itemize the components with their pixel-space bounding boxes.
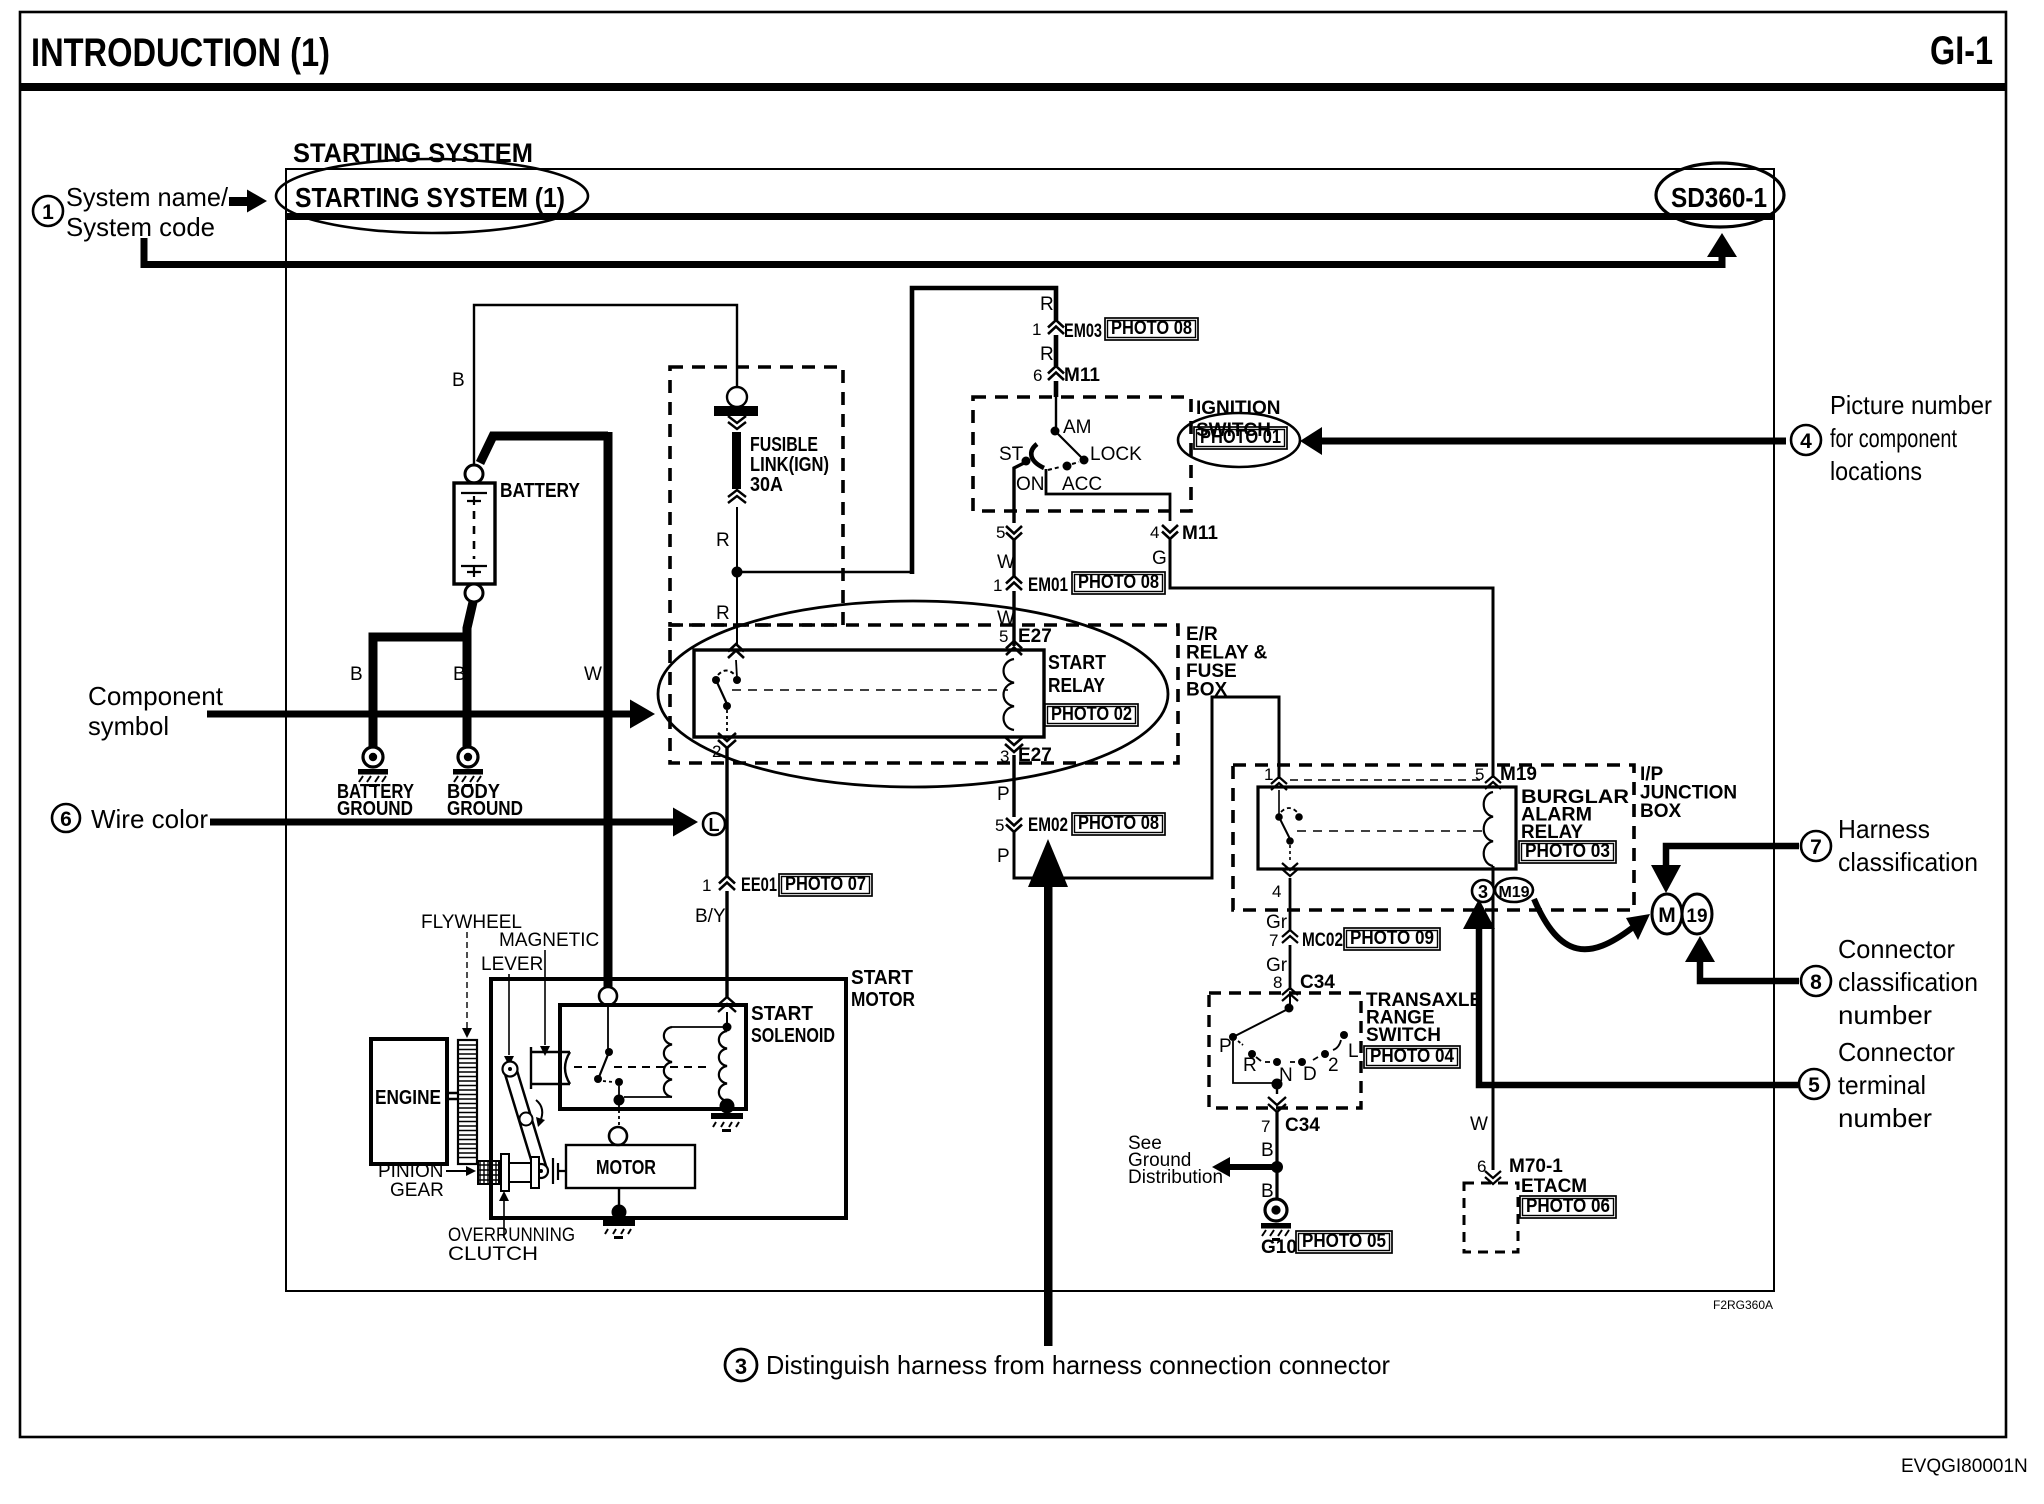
svg-text:M70-1: M70-1	[1509, 1156, 1563, 1177]
burglar relay centre dashed line	[1297, 830, 1486, 832]
transaxle switch common node	[1285, 1004, 1294, 1013]
svg-text:Connector: Connector	[1838, 934, 1955, 964]
node R junction	[732, 567, 743, 578]
svg-text:PHOTO 08: PHOTO 08	[1078, 572, 1159, 593]
svg-text:C34: C34	[1285, 1115, 1320, 1136]
svg-text:OVERRUNNING: OVERRUNNING	[448, 1225, 575, 1246]
svg-text:number: number	[1838, 1000, 1932, 1030]
burglar relay switch	[1275, 813, 1283, 821]
callout 3 arrow distinguish harness	[1044, 886, 1053, 1346]
node ST contact	[1022, 457, 1031, 466]
svg-text:RELAY: RELAY	[1048, 675, 1106, 697]
wire solenoid switch to motor	[618, 1104, 620, 1127]
svg-text:E27: E27	[1018, 745, 1052, 766]
battery positive terminal circle	[465, 465, 483, 483]
pinion gear	[478, 1161, 499, 1184]
svg-text:B: B	[350, 664, 363, 685]
svg-text:R: R	[1040, 344, 1054, 365]
battery ground symbol	[363, 747, 383, 767]
callout 8 circle	[1801, 966, 1831, 996]
svg-text:W: W	[1470, 1114, 1488, 1135]
fusible link element	[732, 432, 741, 489]
photo box MC02 PHOTO 09	[1344, 928, 1440, 950]
wire ACC to terminal 4	[1046, 469, 1170, 521]
wire EM01 to start relay pin 5	[1012, 591, 1015, 646]
svg-text:M: M	[1658, 904, 1676, 927]
photo box EM03 PHOTO 08	[1105, 318, 1198, 340]
transaxle contact 2	[1321, 1050, 1329, 1058]
svg-text:LINK(IGN): LINK(IGN)	[750, 454, 829, 476]
ETACM dashed box	[1464, 1183, 1518, 1252]
svg-text:BATTERY: BATTERY	[500, 480, 581, 502]
wire B/Y EE01 to solenoid	[725, 891, 728, 998]
svg-text:4: 4	[1800, 430, 1812, 453]
connector 3 circle	[1472, 880, 1494, 902]
svg-text:7: 7	[1810, 836, 1822, 859]
wire R EM03 to M11	[1054, 335, 1059, 366]
svg-text:30A: 30A	[750, 474, 783, 496]
photo box ETACM PHOTO 06	[1520, 1196, 1616, 1218]
start relay coil pin 3 chevron	[1005, 737, 1023, 752]
callout 7 leader	[1666, 846, 1799, 866]
svg-text:RELAY: RELAY	[1521, 822, 1583, 843]
svg-text:6: 6	[1033, 366, 1042, 385]
svg-text:symbol: symbol	[88, 711, 169, 741]
svg-text:System code: System code	[66, 212, 215, 242]
transaxle output node	[1272, 1079, 1283, 1090]
diagram frame box	[286, 169, 1774, 1291]
svg-text:EE01: EE01	[741, 875, 777, 896]
node AM contact	[1051, 427, 1060, 436]
svg-text:ETACM: ETACM	[1521, 1176, 1587, 1197]
svg-text:7: 7	[1269, 931, 1278, 950]
svg-text:1: 1	[1032, 320, 1041, 339]
component symbol ellipse	[658, 601, 1168, 787]
svg-text:PHOTO 08: PHOTO 08	[1078, 813, 1159, 834]
body ground symbol	[458, 747, 478, 767]
overrunning clutch leader	[503, 1197, 505, 1238]
solenoid coil junction	[726, 1012, 728, 1026]
svg-text:2: 2	[1328, 1055, 1339, 1076]
svg-text:MOTOR: MOTOR	[596, 1157, 656, 1179]
wire ST to terminal 5	[1014, 462, 1026, 523]
svg-text:F2RG360A: F2RG360A	[1713, 1298, 1773, 1312]
system name ellipse	[276, 159, 588, 233]
svg-text:B: B	[1261, 1140, 1274, 1161]
callout 8 leader	[1700, 958, 1799, 981]
svg-text:B: B	[453, 664, 466, 685]
callout 5 circle	[1799, 1069, 1829, 1099]
curved arrow M19 to oval	[1534, 899, 1632, 949]
engine shaft	[447, 1093, 459, 1099]
svg-text:L: L	[1348, 1041, 1359, 1062]
burglar relay inner dashed line	[1290, 779, 1480, 781]
transaxle switch arm to P	[1235, 1010, 1286, 1036]
thick wire battery negative to grounds	[373, 602, 473, 748]
svg-text:EVQGI80001N: EVQGI80001N	[1901, 1456, 2028, 1477]
start relay box	[694, 650, 1044, 737]
start solenoid box	[560, 1005, 746, 1109]
solenoid actuator dashed line	[574, 1066, 600, 1068]
transaxle contact N	[1273, 1058, 1281, 1066]
svg-text:AM: AM	[1063, 417, 1092, 438]
callout 4 circle	[1791, 425, 1821, 455]
lever rotation arrow	[536, 1100, 542, 1122]
svg-text:M11: M11	[1182, 523, 1218, 544]
flywheel leader	[466, 932, 468, 1028]
callout 4 arrow	[1321, 438, 1786, 445]
svg-text:1: 1	[993, 576, 1002, 595]
start relay centre dashed line	[732, 689, 1008, 691]
svg-text:PINION: PINION	[378, 1161, 443, 1182]
svg-text:8: 8	[1273, 973, 1282, 992]
ignition key arm	[1031, 444, 1044, 468]
svg-text:B/Y: B/Y	[695, 906, 726, 927]
svg-text:R: R	[716, 530, 730, 551]
svg-text:SWITCH: SWITCH	[1366, 1025, 1441, 1046]
motor box	[566, 1145, 695, 1188]
svg-text:FUSIBLE: FUSIBLE	[750, 434, 818, 456]
svg-text:C34: C34	[1300, 972, 1335, 993]
svg-text:1: 1	[42, 201, 54, 224]
burglar alarm relay box	[1258, 787, 1516, 869]
motor ground	[618, 1188, 620, 1206]
photo box TRANSAXLE PHOTO 04	[1364, 1046, 1460, 1068]
svg-text:INTRODUCTION (1): INTRODUCTION (1)	[31, 31, 330, 75]
callout 1 circle	[33, 196, 63, 226]
svg-text:Distinguish harness from harne: Distinguish harness from harness connect…	[766, 1350, 1390, 1380]
svg-text:CLUTCH: CLUTCH	[448, 1244, 538, 1265]
svg-text:MAGNETIC: MAGNETIC	[499, 930, 599, 951]
svg-text:Component: Component	[88, 681, 224, 711]
svg-text:5: 5	[995, 816, 1004, 835]
photo box PHOTO 01	[1194, 427, 1287, 449]
svg-text:EM03: EM03	[1064, 321, 1102, 342]
svg-text:M19: M19	[1498, 884, 1529, 901]
svg-text:number: number	[1838, 1103, 1932, 1133]
fusible link top terminal circle	[727, 387, 747, 407]
pinion gear arrow	[446, 1170, 468, 1172]
svg-text:5: 5	[996, 523, 1005, 542]
svg-text:Wire color: Wire color	[91, 804, 208, 834]
svg-text:5: 5	[1808, 1074, 1820, 1097]
svg-text:M11: M11	[1064, 365, 1100, 386]
start relay switch	[712, 676, 720, 684]
svg-text:19: 19	[1686, 906, 1707, 927]
transaxle contact L	[1340, 1031, 1348, 1039]
wire B battery to fusible link	[474, 305, 737, 465]
photo box START RELAY PHOTO 02	[1045, 704, 1138, 726]
solenoid pull-in coil	[664, 1027, 672, 1097]
photo box EM01 PHOTO 08	[1072, 572, 1165, 594]
see ground distribution arrow	[1212, 1157, 1230, 1177]
svg-text:P: P	[997, 846, 1010, 867]
start relay coil pin 5 chevron	[1006, 641, 1022, 655]
svg-text:GEAR: GEAR	[390, 1180, 444, 1201]
transaxle contact R	[1248, 1050, 1256, 1058]
connector classification 19 oval	[1682, 894, 1712, 934]
svg-text:3: 3	[1000, 747, 1009, 766]
svg-text:4: 4	[1272, 882, 1281, 901]
ground G10 symbol	[1265, 1199, 1287, 1221]
battery BAT symbol	[454, 483, 495, 584]
burglar relay pin 4 chevron	[1282, 863, 1298, 876]
callout 1 arrow	[229, 197, 249, 206]
node LOCK contact	[1080, 456, 1089, 465]
svg-text:Distribution: Distribution	[1128, 1167, 1223, 1188]
svg-text:4: 4	[1150, 523, 1159, 542]
ignition AM-LOCK arm	[1056, 432, 1082, 458]
overrunning clutch	[501, 1154, 509, 1191]
svg-text:R: R	[1040, 294, 1054, 315]
svg-text:PHOTO 04: PHOTO 04	[1370, 1046, 1454, 1067]
start motor box	[491, 979, 846, 1218]
svg-text:EM02: EM02	[1028, 815, 1068, 836]
svg-text:1: 1	[702, 876, 711, 895]
svg-text:STARTING SYSTEM (1): STARTING SYSTEM (1)	[295, 182, 565, 213]
svg-text:EM01: EM01	[1028, 575, 1068, 596]
node ACC contact	[1063, 462, 1072, 471]
svg-text:3: 3	[1478, 882, 1488, 902]
solenoid switch	[607, 1005, 609, 1049]
wire R fusible to relay	[736, 507, 738, 646]
battery negative terminal circle	[465, 584, 483, 602]
svg-text:PHOTO 08: PHOTO 08	[1111, 318, 1192, 339]
wire R junction to EM03 riser	[737, 571, 912, 573]
svg-text:7: 7	[1261, 1117, 1270, 1136]
start relay pin 2 chevron	[718, 733, 736, 748]
svg-text:SOLENOID: SOLENOID	[751, 1025, 835, 1047]
svg-text:System name/: System name/	[66, 182, 229, 212]
svg-text:classification: classification	[1838, 847, 1978, 877]
svg-text:B: B	[452, 370, 465, 391]
svg-text:R: R	[1243, 1055, 1257, 1076]
svg-text:PHOTO 03: PHOTO 03	[1525, 841, 1610, 862]
svg-text:PHOTO 09: PHOTO 09	[1350, 928, 1434, 949]
transaxle range switch dashed box	[1209, 993, 1361, 1108]
photo box G10 PHOTO 05	[1296, 1231, 1392, 1253]
svg-text:3: 3	[735, 1354, 747, 1379]
magnetic leader	[544, 950, 546, 1045]
flywheel gear	[458, 1040, 477, 1164]
burglar relay coil	[1484, 792, 1493, 866]
svg-text:E27: E27	[1018, 626, 1052, 647]
start relay pin 1 chevron	[728, 644, 744, 658]
svg-text:BOX: BOX	[1640, 801, 1682, 822]
svg-text:locations: locations	[1830, 456, 1922, 486]
wire 5 to EM01	[1012, 540, 1015, 577]
svg-text:Harness: Harness	[1838, 814, 1930, 844]
callout component symbol arrow	[207, 711, 631, 718]
solenoid plunger	[531, 1047, 570, 1089]
svg-text:8: 8	[1810, 971, 1822, 994]
svg-text:M19: M19	[1500, 764, 1537, 785]
svg-text:classification: classification	[1838, 967, 1978, 997]
photo box BURGLAR PHOTO 03	[1519, 841, 1616, 863]
svg-text:START: START	[751, 1003, 813, 1025]
wire M11 to ignition switch AM	[1054, 381, 1059, 397]
wire M19 pin3 to ETACM	[1492, 866, 1495, 1170]
solenoid hold coil	[719, 1031, 727, 1101]
wire B C34 to G10	[1275, 1111, 1278, 1200]
svg-text:GROUND: GROUND	[447, 798, 523, 820]
svg-text:terminal: terminal	[1838, 1070, 1926, 1100]
svg-text:P: P	[1219, 1036, 1232, 1057]
svg-text:L: L	[709, 815, 720, 835]
svg-text:Picture number: Picture number	[1830, 390, 1992, 420]
transaxle contact P	[1229, 1033, 1237, 1041]
svg-text:ENGINE: ENGINE	[375, 1087, 441, 1109]
callout 3 circle	[725, 1349, 757, 1381]
svg-text:GI-1: GI-1	[1930, 29, 1993, 73]
ignition arm to ACC dashes	[1048, 462, 1079, 470]
svg-text:W: W	[584, 664, 602, 685]
svg-text:PHOTO 01: PHOTO 01	[1200, 427, 1281, 448]
svg-text:ON: ON	[1016, 474, 1045, 495]
solenoid ground	[720, 1099, 735, 1114]
connector C34 pin 7	[1268, 1097, 1286, 1112]
I/P junction dashed box	[1233, 765, 1634, 910]
shift lever	[510, 1069, 541, 1171]
solenoid pin chevron	[718, 997, 736, 1012]
svg-text:G: G	[1152, 548, 1167, 569]
photo box EE01 PHOTO 07	[779, 874, 872, 896]
svg-text:1: 1	[1264, 765, 1273, 784]
svg-text:GROUND: GROUND	[337, 798, 413, 820]
burglar relay pin 5 chevron	[1485, 776, 1501, 789]
svg-text:PHOTO 06: PHOTO 06	[1526, 1196, 1610, 1217]
svg-text:6: 6	[60, 808, 72, 831]
wire Gr burglar 4 to MC02	[1289, 878, 1292, 930]
svg-text:START: START	[1048, 652, 1106, 674]
wire Gr MC02 to C34	[1289, 945, 1292, 990]
node ground distribution junction	[1271, 1161, 1283, 1173]
callout 6 circle	[52, 804, 80, 832]
svg-text:Gr: Gr	[1266, 912, 1288, 933]
start motor feed circle	[599, 987, 617, 1005]
svg-text:Connector: Connector	[1838, 1037, 1955, 1067]
callout 5 leader	[1479, 927, 1798, 1085]
svg-text:ACC: ACC	[1062, 474, 1102, 495]
callout 1 leader to SD360-1	[144, 238, 1722, 265]
engine box	[371, 1039, 447, 1164]
connector M19 oval	[1495, 878, 1533, 902]
E/R relay and fuse dashed box	[670, 625, 1178, 763]
motor terminal circle	[609, 1127, 627, 1145]
svg-text:LOCK: LOCK	[1090, 444, 1142, 465]
svg-text:MOTOR: MOTOR	[851, 989, 915, 1011]
svg-text:SD360-1: SD360-1	[1671, 182, 1767, 213]
svg-text:PHOTO 05: PHOTO 05	[1302, 1231, 1386, 1252]
svg-text:for component: for component	[1830, 423, 1958, 453]
svg-text:5: 5	[1475, 765, 1484, 784]
harness classification M oval	[1652, 894, 1682, 934]
ignition switch dashed box	[973, 397, 1191, 511]
transaxle contact D	[1298, 1058, 1306, 1066]
wire color circle L	[703, 813, 725, 835]
system code ellipse SD360-1	[1656, 163, 1784, 227]
fusible link dashed box	[670, 367, 843, 625]
wire P start relay 3 to EM02	[1012, 755, 1015, 817]
svg-text:PHOTO 07: PHOTO 07	[785, 874, 866, 895]
svg-text:MC02: MC02	[1302, 930, 1343, 951]
callout wire color arrow	[210, 819, 674, 826]
wire EM02 to burglar relay pin 1	[1014, 697, 1279, 878]
system rule thick line	[286, 213, 1774, 220]
transaxle P to output wire	[1233, 1041, 1272, 1083]
svg-text:LEVER: LEVER	[481, 954, 543, 975]
start relay coil	[1004, 659, 1014, 730]
fusible link lower chevron	[728, 490, 746, 503]
callout 7 circle	[1801, 831, 1831, 861]
lever leader	[508, 974, 510, 1055]
wire start relay 2 to EE01	[725, 747, 728, 877]
thick wire battery positive to W feed	[480, 432, 608, 990]
svg-text:D: D	[1303, 1064, 1317, 1085]
svg-text:2: 2	[712, 742, 721, 761]
svg-text:P: P	[997, 784, 1010, 805]
wire G ignition 4 to burglar riser	[1170, 539, 1493, 778]
svg-text:W: W	[997, 552, 1015, 573]
svg-text:5: 5	[999, 627, 1008, 646]
svg-text:PHOTO 02: PHOTO 02	[1051, 704, 1132, 725]
photo 01 ellipse	[1178, 413, 1300, 467]
svg-text:START: START	[851, 967, 913, 989]
svg-text:6: 6	[1477, 1157, 1486, 1176]
fusible link upper chevron	[728, 416, 746, 429]
svg-text:R: R	[716, 603, 730, 624]
title rule bar	[20, 83, 2006, 91]
fusible link holder bar	[714, 406, 758, 416]
photo box EM02 PHOTO 08	[1072, 813, 1165, 835]
svg-text:ST: ST	[999, 444, 1024, 465]
svg-text:G10: G10	[1261, 1237, 1297, 1258]
